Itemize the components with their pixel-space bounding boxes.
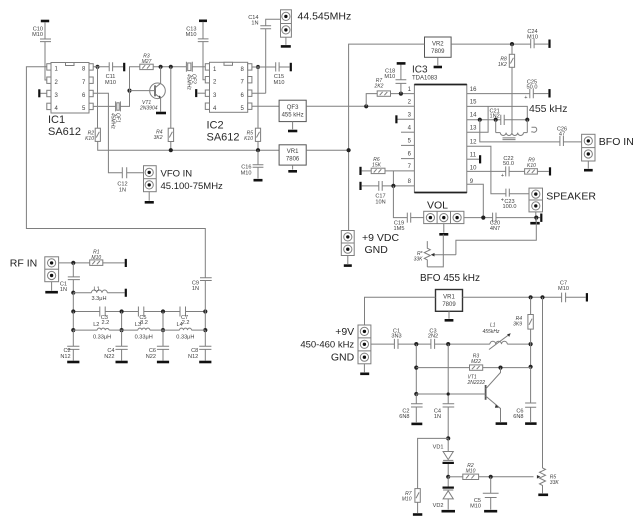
wire pin5 to QF3 bbox=[252, 105, 279, 107]
svg-text:6N8: 6N8 bbox=[399, 414, 409, 420]
svg-text:M22: M22 bbox=[471, 359, 481, 365]
wire to bus bbox=[98, 141, 279, 150]
svg-text:1N2: 1N2 bbox=[489, 113, 499, 119]
svg-text:1K2: 1K2 bbox=[498, 62, 507, 68]
capacitor C13 bbox=[186, 27, 209, 42]
svg-text:7809: 7809 bbox=[442, 302, 456, 308]
wire R3 left bbox=[130, 67, 140, 91]
transistor VT1 2N2222 bbox=[467, 368, 501, 422]
wire pin1 to C9 bbox=[26, 67, 205, 278]
node collector bbox=[498, 366, 502, 370]
resistor R4 (BFO) bbox=[513, 315, 533, 330]
ground (C6) bbox=[157, 361, 169, 364]
capacitor C4 bbox=[104, 330, 127, 360]
svg-text:3K9: 3K9 bbox=[513, 322, 522, 328]
svg-text:M10: M10 bbox=[274, 80, 285, 86]
wire pin11 bbox=[467, 158, 479, 160]
capacitor C20 bbox=[490, 213, 500, 232]
svg-text:N22: N22 bbox=[104, 354, 114, 360]
svg-text:1N: 1N bbox=[192, 286, 199, 292]
wire bbox=[127, 172, 144, 174]
wire QF3 to pin2 bbox=[306, 105, 414, 107]
connector VOL bbox=[424, 200, 464, 224]
resistor R7 bbox=[366, 78, 414, 106]
svg-text:+9V: +9V bbox=[335, 326, 354, 338]
wire pin12 to C23 bbox=[467, 146, 506, 193]
capacitor C3 bbox=[100, 307, 109, 327]
svg-text:2N2: 2N2 bbox=[428, 334, 438, 340]
wire C14 bottom to pin6 bbox=[252, 29, 266, 94]
wire pin10 to C22 bbox=[467, 170, 506, 172]
wire bbox=[45, 42, 47, 80]
wire bbox=[496, 217, 540, 219]
wire VR2 ground stub bbox=[437, 57, 439, 65]
svg-text:M27: M27 bbox=[142, 59, 152, 65]
svg-text:M10: M10 bbox=[384, 74, 395, 80]
inductor L4 bbox=[163, 322, 205, 340]
node L1 left bbox=[71, 291, 75, 295]
connector BFO IN bbox=[582, 134, 634, 161]
svg-text:45MHz: 45MHz bbox=[186, 74, 192, 90]
wire bbox=[435, 343, 490, 345]
ground (R7 BFO) bbox=[413, 513, 422, 516]
svg-text:+: + bbox=[501, 173, 504, 179]
node B bbox=[446, 342, 450, 346]
capacitor C1 (BFO) bbox=[391, 328, 401, 349]
capacitor C26 bbox=[557, 127, 567, 147]
svg-text:K10: K10 bbox=[527, 163, 536, 169]
capacitor C4 (BFO) bbox=[434, 344, 454, 438]
terminator (C17 left) bbox=[359, 182, 361, 190]
svg-text:IC2: IC2 bbox=[207, 120, 224, 132]
svg-text:VFO IN: VFO IN bbox=[161, 169, 193, 180]
node rail4 bbox=[203, 309, 207, 313]
node rail3 bbox=[161, 309, 165, 313]
capacitor C21 bbox=[489, 108, 504, 125]
wire +9V riser bbox=[349, 44, 425, 230]
wire C14 top bbox=[266, 19, 281, 26]
ground (VOL) bbox=[439, 233, 448, 236]
svg-text:2N2222: 2N2222 bbox=[467, 380, 486, 386]
capacitor C16 bbox=[241, 165, 264, 177]
wire bbox=[563, 141, 581, 143]
wire bbox=[398, 343, 431, 345]
potentiometer R5 33K (BFO) bbox=[537, 297, 559, 493]
node R7 branch bbox=[364, 104, 368, 108]
capacitor C18 bbox=[384, 65, 406, 94]
inductor row verticals bbox=[73, 312, 205, 331]
svg-text:VR2: VR2 bbox=[432, 41, 444, 47]
svg-text:VD2: VD2 bbox=[433, 503, 444, 509]
capacitor C5 bbox=[138, 307, 147, 327]
capacitor C9 bbox=[192, 278, 212, 292]
wire pin13 to pin15 bbox=[467, 106, 488, 132]
IC3 TDA1083 bbox=[408, 65, 477, 193]
svg-text:+: + bbox=[501, 198, 504, 204]
secondary curl bbox=[531, 127, 537, 132]
svg-text:50.0: 50.0 bbox=[527, 84, 538, 90]
connector +9 VDC GND bbox=[341, 231, 399, 256]
wire VR1 ground stub bbox=[448, 311, 450, 318]
svg-text:QF3: QF3 bbox=[287, 105, 299, 111]
svg-text:SA612: SA612 bbox=[207, 132, 240, 144]
wire base bbox=[130, 90, 156, 92]
capacitor C5 (BFO) bbox=[470, 477, 498, 510]
wire VR2 out rail bbox=[451, 43, 531, 45]
wire bbox=[40, 92, 46, 94]
capacitor C17 bbox=[362, 181, 415, 206]
wire bbox=[72, 293, 74, 312]
wire bbox=[93, 66, 109, 68]
wire bbox=[587, 161, 589, 169]
node R4 bus bbox=[169, 148, 173, 152]
svg-text:2N3904: 2N3904 bbox=[139, 106, 158, 112]
svg-text:7809: 7809 bbox=[431, 49, 445, 55]
wire bbox=[44, 22, 46, 39]
ground (BFO IN conn) bbox=[584, 169, 593, 172]
node C4 base cross bbox=[447, 392, 450, 395]
capacitor C10 bbox=[32, 27, 51, 42]
resistor R4 bbox=[154, 128, 174, 141]
voltage regulator VR1 7806 bbox=[279, 145, 306, 165]
svg-text:VD1: VD1 bbox=[433, 445, 444, 451]
svg-text:33K: 33K bbox=[550, 480, 560, 486]
capacitor C3 (BFO) bbox=[428, 328, 438, 349]
svg-text:VOL: VOL bbox=[427, 200, 448, 212]
wire bbox=[535, 212, 537, 222]
wire bbox=[51, 282, 53, 291]
svg-text:45MHz: 45MHz bbox=[110, 113, 116, 129]
wire R7 branch bbox=[418, 438, 449, 488]
diode VD2 (varactor) bbox=[433, 477, 454, 510]
capacitor C23 bbox=[501, 189, 517, 211]
terminator (C7 right) bbox=[586, 293, 588, 301]
wire pin6 down to VFO bbox=[93, 93, 122, 172]
IF transformer winding 455kHz bbox=[496, 120, 528, 140]
svg-text:7806: 7806 bbox=[286, 157, 300, 163]
svg-text:IC1: IC1 bbox=[48, 114, 65, 126]
svg-text:1N: 1N bbox=[251, 21, 258, 27]
node collector rail bbox=[529, 365, 533, 369]
wire VOL ground bbox=[443, 224, 445, 233]
svg-text:VR1: VR1 bbox=[287, 149, 299, 155]
svg-text:M10: M10 bbox=[32, 32, 43, 38]
wire bbox=[537, 170, 548, 172]
capacitor C22 bbox=[501, 156, 514, 179]
svg-text:13: 13 bbox=[470, 126, 477, 132]
wire R2 top bbox=[97, 67, 99, 128]
svg-text:TDA1083: TDA1083 bbox=[412, 76, 438, 82]
node rail2 bbox=[120, 309, 124, 313]
ground (C8) bbox=[199, 361, 211, 364]
svg-text:12: 12 bbox=[470, 140, 477, 146]
svg-text:3K2: 3K2 bbox=[154, 135, 163, 141]
wire bbox=[203, 42, 205, 80]
ground (C6 BFO) bbox=[525, 422, 537, 425]
svg-text:45.100-75MHz: 45.100-75MHz bbox=[161, 181, 224, 192]
wire pin5 stub bbox=[401, 144, 414, 146]
node L-row4 bbox=[203, 328, 207, 332]
wire bbox=[148, 192, 150, 201]
ground (RF conn) bbox=[45, 291, 58, 294]
terminator (IC3 pin11) bbox=[479, 155, 481, 163]
capacitor C11 bbox=[105, 62, 116, 86]
svg-text:SA612: SA612 bbox=[48, 126, 81, 138]
potentiometer R* 33K (BFO) bbox=[414, 218, 537, 267]
svg-text:M10: M10 bbox=[105, 80, 116, 86]
crystal filter QF3 455kHz bbox=[279, 100, 306, 121]
svg-text:2.2: 2.2 bbox=[182, 320, 190, 326]
wire bbox=[202, 22, 204, 39]
svg-text:44.545MHz: 44.545MHz bbox=[298, 11, 352, 23]
connector RF IN bbox=[10, 257, 59, 282]
svg-text:0.33μH: 0.33μH bbox=[135, 334, 153, 340]
wire tank to C26 bbox=[480, 120, 560, 142]
wire R4 vertical bbox=[530, 297, 532, 367]
inductor L2 bbox=[73, 322, 121, 340]
svg-text:455 kHz: 455 kHz bbox=[529, 103, 568, 115]
filter top rail bbox=[73, 311, 205, 313]
svg-text:16: 16 bbox=[470, 87, 477, 93]
wire pin14 tank row bbox=[467, 119, 528, 121]
connector SPEAKER bbox=[529, 188, 596, 212]
node R2 left bbox=[446, 475, 450, 479]
svg-text:2K2: 2K2 bbox=[374, 84, 384, 90]
wire QF3 ground stub bbox=[292, 122, 294, 130]
wire bbox=[113, 66, 123, 68]
svg-text:3N3: 3N3 bbox=[391, 334, 401, 340]
wire bbox=[411, 217, 424, 219]
svg-text:10N: 10N bbox=[375, 200, 385, 206]
connector VFO IN bbox=[144, 166, 224, 192]
wire C23 to speaker bbox=[509, 193, 529, 195]
svg-text:1N: 1N bbox=[60, 287, 67, 293]
wire R4 bbox=[170, 67, 172, 150]
wire VR1 left to connector bbox=[365, 297, 436, 325]
svg-text:M10: M10 bbox=[527, 34, 538, 40]
svg-text:+: + bbox=[524, 95, 527, 101]
capacitor C24 bbox=[527, 29, 538, 48]
svg-text:33K: 33K bbox=[414, 256, 424, 262]
capacitor C12 bbox=[117, 167, 127, 193]
node pin9 junction bbox=[481, 216, 485, 220]
diode VD1 (varactor) bbox=[433, 438, 454, 475]
node RF bbox=[71, 261, 75, 265]
terminator (IC1 pin3) bbox=[38, 89, 40, 97]
terminator (C15 right) bbox=[290, 63, 292, 72]
voltage regulator VR1 7809 (BFO) bbox=[436, 290, 463, 312]
svg-text:M10: M10 bbox=[466, 468, 476, 474]
node L-row3 bbox=[161, 328, 165, 332]
svg-text:N12: N12 bbox=[188, 354, 198, 360]
wire VR1 right bbox=[306, 149, 348, 151]
svg-text:455 kHz: 455 kHz bbox=[282, 113, 304, 119]
svg-text:0.33μH: 0.33μH bbox=[93, 334, 111, 340]
svg-text:K10: K10 bbox=[85, 136, 94, 142]
terminator (C24 right) bbox=[548, 40, 550, 48]
svg-text:GND: GND bbox=[331, 352, 355, 364]
svg-text:10: 10 bbox=[470, 166, 477, 172]
node L-row2 bbox=[120, 328, 124, 332]
svg-text:BFO IN: BFO IN bbox=[599, 136, 634, 148]
svg-text:BFO 455 kHz: BFO 455 kHz bbox=[420, 273, 480, 284]
node tank B bbox=[494, 118, 498, 122]
svg-text:4N7: 4N7 bbox=[490, 226, 500, 232]
svg-text:1N: 1N bbox=[434, 414, 441, 420]
capacitor C15 bbox=[274, 62, 285, 86]
node C18 pin1 bbox=[399, 92, 403, 96]
resistor R6 bbox=[362, 157, 415, 174]
wire C9 to rail bbox=[204, 281, 206, 312]
ground (VR1 BFO) bbox=[445, 319, 454, 322]
terminator (L1 right) bbox=[125, 289, 127, 297]
svg-text:0.33μH: 0.33μH bbox=[176, 334, 194, 340]
wire R8 bbox=[511, 44, 513, 133]
wire bbox=[509, 170, 524, 172]
node L-row1 bbox=[71, 328, 75, 332]
wire bbox=[257, 150, 259, 178]
svg-text:100.0: 100.0 bbox=[503, 204, 517, 210]
ground (R5 BFO) bbox=[538, 493, 548, 496]
ground (44.545 conn) bbox=[281, 45, 291, 48]
terminator (R6 left) bbox=[359, 167, 361, 175]
transistor VT1 2N3904 bbox=[139, 67, 165, 112]
terminator (IC2 pin3) bbox=[195, 89, 197, 97]
wire pin16 to C25 bbox=[467, 93, 530, 95]
terminator (C20 right) bbox=[540, 214, 542, 222]
svg-text:IC3: IC3 bbox=[412, 65, 428, 76]
svg-text:15K: 15K bbox=[372, 163, 382, 169]
node L1 R4 bbox=[529, 342, 533, 346]
capacitor C6 bbox=[146, 330, 169, 360]
node tank A bbox=[478, 118, 482, 122]
ground (top, C13) bbox=[199, 19, 207, 22]
inductor L1 3.3uH bbox=[73, 287, 124, 302]
capacitor C6 (BFO) bbox=[513, 367, 536, 422]
ground (+9VDC conn) bbox=[344, 264, 352, 267]
terminator (R1 right) bbox=[125, 259, 127, 267]
ground (VT1 emitter BFO) bbox=[496, 422, 508, 425]
node rail R5 bbox=[540, 295, 544, 299]
svg-text:L1: L1 bbox=[490, 322, 496, 328]
crystal QF1 45MHz bbox=[110, 101, 121, 129]
resistor R2 (BFO) bbox=[448, 463, 533, 480]
capacitor C25 bbox=[524, 79, 537, 101]
wire pin6 stub bbox=[401, 158, 414, 160]
wire VR1 right rail bbox=[463, 296, 562, 298]
wire bbox=[533, 93, 548, 95]
terminator (C25 right) bbox=[548, 89, 550, 97]
node R2 right bbox=[489, 475, 493, 479]
svg-text:M10: M10 bbox=[91, 255, 101, 261]
svg-text:M10: M10 bbox=[241, 171, 252, 177]
node BFO pot tap bbox=[534, 216, 538, 220]
ground (speaker conn) bbox=[530, 222, 539, 225]
resistor R2 bbox=[85, 128, 100, 142]
wire bbox=[59, 262, 90, 264]
svg-text:L2: L2 bbox=[93, 322, 99, 328]
node VR1 right bbox=[347, 148, 351, 152]
terminator (R9 right) bbox=[549, 167, 551, 175]
node R5 bus bbox=[256, 148, 260, 152]
svg-text:M10: M10 bbox=[470, 504, 481, 510]
svg-text:M10: M10 bbox=[186, 32, 197, 38]
ground (BFO conn) bbox=[360, 372, 369, 375]
wire QF1 right bbox=[120, 67, 129, 107]
node rail R4 bbox=[529, 295, 533, 299]
svg-text:L1: L1 bbox=[94, 287, 100, 293]
capacitor C14 bbox=[248, 15, 271, 29]
capacitor C8 bbox=[188, 330, 211, 360]
resistor R3 bbox=[140, 54, 153, 70]
node base bbox=[127, 89, 131, 93]
svg-text:14: 14 bbox=[470, 113, 477, 119]
svg-text:8.2: 8.2 bbox=[140, 320, 148, 326]
connector 44.545MHz bbox=[281, 10, 352, 37]
wire bbox=[285, 37, 287, 45]
node VD1 top bbox=[446, 436, 450, 440]
wire QF2 right to IC2 pin1 bbox=[192, 66, 205, 68]
node pin8 C17 bbox=[391, 184, 395, 188]
svg-text:+9 VDC: +9 VDC bbox=[362, 232, 399, 244]
node pin8 bbox=[95, 65, 99, 69]
ground (C16) bbox=[254, 179, 263, 182]
resistor R7 (BFO) bbox=[402, 489, 421, 503]
node A bbox=[414, 342, 418, 346]
IC1 SA612 bbox=[47, 63, 93, 139]
resistor R3 (BFO) bbox=[416, 354, 530, 371]
wire bbox=[534, 43, 548, 45]
node collector bbox=[159, 65, 163, 69]
capacitor C19 bbox=[394, 213, 411, 232]
svg-text:GND: GND bbox=[365, 244, 389, 256]
node tank C bbox=[525, 118, 529, 122]
node base bbox=[414, 392, 418, 396]
wire pin4 stub bbox=[401, 131, 414, 133]
wire pin8 to C19 bbox=[393, 186, 407, 218]
ground (C18 top) bbox=[397, 62, 406, 65]
svg-text:1M5: 1M5 bbox=[394, 226, 405, 232]
capacitor C2 bbox=[60, 330, 79, 360]
ground (C2) bbox=[67, 361, 79, 364]
svg-text:VR1: VR1 bbox=[443, 294, 455, 300]
svg-text:L4: L4 bbox=[177, 322, 183, 328]
ground (C4) bbox=[116, 361, 128, 364]
ground (VR2) bbox=[434, 66, 442, 69]
svg-text:6N8: 6N8 bbox=[513, 414, 523, 420]
svg-text:M10: M10 bbox=[558, 286, 569, 292]
terminator (C11 right) bbox=[123, 63, 125, 72]
crystal QF2 45MHz bbox=[186, 62, 197, 91]
ground (C5 BFO) bbox=[484, 510, 497, 513]
wire bbox=[72, 263, 74, 293]
wire node A down bbox=[415, 344, 417, 394]
wire bbox=[417, 502, 419, 513]
svg-text:M10: M10 bbox=[402, 497, 412, 503]
wire pin3 bbox=[398, 118, 415, 120]
connector +9V 450-460kHz GND bbox=[300, 325, 371, 364]
wire bbox=[347, 256, 349, 265]
svg-text:1N: 1N bbox=[119, 188, 126, 194]
ground (QF3) bbox=[288, 130, 297, 133]
capacitor C1 bbox=[60, 277, 80, 293]
svg-text:3.3μH: 3.3μH bbox=[92, 296, 107, 302]
capacitor C7 (BFO) bbox=[558, 281, 569, 303]
svg-text:SPEAKER: SPEAKER bbox=[546, 191, 596, 203]
ground (VD2) bbox=[442, 510, 456, 513]
node A2 bbox=[414, 366, 418, 370]
svg-text:50.0: 50.0 bbox=[503, 161, 514, 167]
